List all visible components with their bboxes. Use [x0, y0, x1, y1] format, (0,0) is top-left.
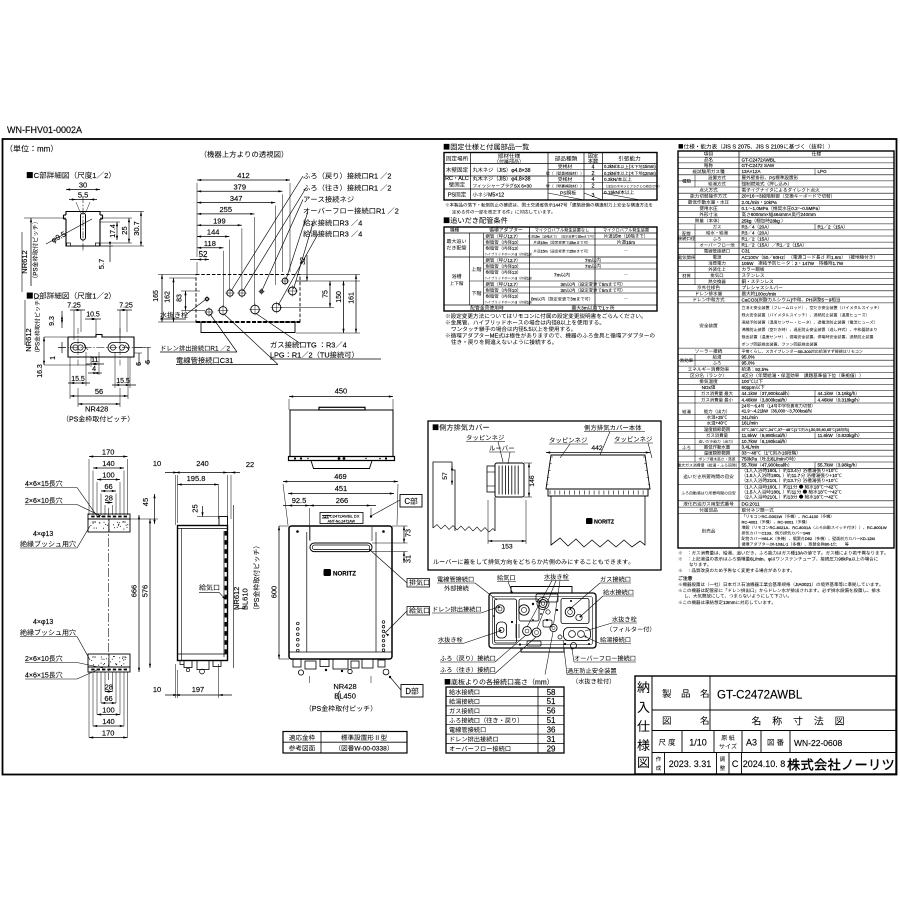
svg-text:92.5: 92.5	[292, 496, 307, 505]
svg-text:R1: R1	[742, 237, 748, 242]
svg-text:10: 10	[512, 288, 517, 293]
svg-text:,38: ,38	[750, 428, 755, 432]
svg-text:R1: R1	[369, 184, 378, 193]
svg-text:4: 4	[752, 224, 755, 229]
svg-text:30: 30	[79, 181, 87, 190]
D dim 10.5	[85, 312, 101, 336]
svg-text:+25: +25	[716, 415, 724, 420]
svg-text:WN-22-0608: WN-22-0608	[794, 738, 842, 748]
svg-text:1: 1	[50, 356, 57, 360]
svg-text:AC100V: AC100V	[742, 255, 760, 260]
svg-text:240mm: 240mm	[801, 212, 816, 217]
svg-text:2.0L/min: 2.0L/min	[742, 200, 760, 205]
svg-text:30.7: 30.7	[132, 221, 141, 236]
svg-text:4: 4	[92, 366, 96, 373]
svg-text:9,980kcal/h: 9,980kcal/h	[762, 433, 786, 438]
svg-text:2: 2	[752, 237, 755, 242]
svg-text:37,900kcal/h: 37,900kcal/h	[762, 391, 788, 396]
exhaust dim 146	[524, 463, 536, 497]
bracket centerline	[108, 508, 110, 680]
svg-text:12mm): 12mm)	[643, 171, 657, 176]
svg-text:+10: +10	[826, 478, 834, 483]
svg-text:7m: 7m	[554, 273, 561, 279]
svg-text:1.6m: 1.6m	[831, 255, 841, 260]
top view width dims	[197, 171, 290, 249]
svg-text:φ: φ	[768, 557, 771, 562]
svg-text:GT-C2472 SAW: GT-C2472 SAW	[742, 163, 775, 168]
svg-text:),50,55,60,65: ),50,55,60,65	[809, 428, 831, 432]
svg-text:C: C	[404, 497, 410, 506]
svg-text:C31: C31	[220, 356, 233, 365]
C part outline	[64, 202, 103, 246]
side view bottom parts	[178, 654, 228, 674]
D dim 7.25 right	[117, 303, 133, 341]
D part outline	[68, 335, 134, 358]
svg-text:0m: 0m	[531, 297, 537, 302]
svg-text:0.3kN/: 0.3kN/	[604, 177, 618, 182]
svg-text:15A: 15A	[759, 243, 768, 248]
svg-text:16: 16	[782, 451, 788, 456]
svg-text:25kg: 25kg	[742, 218, 752, 223]
svg-text:600: 600	[270, 586, 279, 599]
svg-text:A3: A3	[746, 738, 757, 748]
svg-text:10: 10	[512, 240, 517, 245]
kanagata table	[283, 732, 407, 754]
side view louvers	[225, 531, 227, 654]
svg-text:4×φ13: 4×φ13	[33, 531, 53, 538]
svg-text:15mm): 15mm)	[643, 164, 657, 169]
svg-text:M5×12: M5×12	[488, 193, 504, 199]
svg-text:TG: TG	[307, 341, 317, 350]
svg-text:100: 100	[102, 471, 115, 480]
front panel lines	[307, 532, 376, 652]
svg-text:RC: RC	[445, 176, 453, 182]
svg-text:150: 150	[336, 291, 343, 303]
svg-text:13: 13	[788, 494, 794, 499]
svg-text:4.21kW: 4.21kW	[754, 409, 768, 414]
svg-text:11.6kW: 11.6kW	[742, 433, 758, 438]
svg-text:20+16: 20+16	[742, 194, 755, 199]
title rows	[652, 710, 896, 753]
svg-text:RC-8031A: RC-8031A	[792, 525, 811, 530]
svg-text:18: 18	[814, 494, 820, 499]
exhaust cover body	[546, 455, 650, 547]
drain small	[204, 296, 210, 302]
svg-text:31: 31	[547, 735, 556, 744]
svg-text:210L: 210L	[767, 494, 778, 499]
svg-text:φ4.8×38: φ4.8×38	[511, 177, 530, 183]
side view body	[178, 517, 228, 661]
svg-text:-3: -3	[514, 300, 517, 304]
D NR612 label	[24, 298, 42, 352]
bv label gas	[570, 576, 632, 609]
svg-text:2×6×10: 2×6×10	[25, 498, 49, 505]
svg-text:105W: 105W	[742, 261, 755, 266]
nounyuu column	[637, 681, 649, 768]
svg-text:240: 240	[196, 459, 209, 468]
table1	[444, 153, 659, 201]
svg-text:1: 1	[92, 292, 96, 301]
svg-text:469: 469	[334, 472, 347, 481]
svg-text:6L/min: 6L/min	[771, 456, 785, 461]
svg-text:9,190kcal/h: 9,190kcal/h	[762, 439, 786, 444]
svg-text:666: 666	[130, 585, 139, 598]
svg-text:13: 13	[527, 276, 531, 280]
svg-text:3,700kcal/h: 3,700kcal/h	[789, 409, 811, 414]
svg-text:JIA0021: JIA0021	[795, 582, 812, 587]
svg-text:RC-9001: RC-9001	[778, 519, 795, 524]
svg-text:170: 170	[102, 729, 115, 738]
svg-text:R1: R1	[777, 243, 783, 248]
front NORITZ logo	[324, 569, 357, 578]
height table	[446, 687, 564, 753]
D NR428 pitch note	[67, 416, 130, 424]
svg-text:58: 58	[547, 688, 556, 697]
svg-text:mm: mm	[37, 145, 51, 154]
svg-text:576: 576	[141, 585, 150, 598]
front screws	[296, 530, 385, 533]
front dim 31	[372, 552, 413, 563]
bv label kyusui	[580, 589, 635, 617]
svg-text:165: 165	[153, 290, 160, 302]
svg-text:10: 10	[626, 234, 631, 239]
svg-text:R3: R3	[326, 341, 335, 350]
svg-text:CaCO3(: CaCO3(	[742, 297, 759, 302]
svg-text:7m: 7m	[585, 258, 592, 264]
svg-text:100cc/min: 100cc/min	[755, 291, 776, 296]
D dim 16.3	[37, 337, 90, 378]
svg-text:PS: PS	[254, 597, 261, 607]
svg-text:5.5: 5.5	[524, 327, 532, 333]
svg-text:6L/min: 6L/min	[750, 557, 764, 562]
svg-text:29: 29	[547, 744, 556, 753]
svg-text:+40: +40	[716, 421, 724, 426]
svg-text:45: 45	[141, 498, 150, 506]
svg-text:2: 2	[104, 292, 108, 301]
front dim 73	[372, 526, 413, 543]
svg-text:(16: (16	[835, 428, 841, 432]
svg-text:464mm×: 464mm×	[773, 212, 791, 217]
bv label furo yuki	[440, 637, 536, 674]
side view intake label	[199, 584, 227, 600]
drawing frame	[3, 139, 897, 775]
svg-text:0.1: 0.1	[742, 206, 749, 211]
svg-text:8: 8	[557, 321, 560, 327]
svg-text:33: 33	[742, 451, 748, 456]
svg-text:100: 100	[742, 379, 750, 384]
svg-text:2: 2	[387, 172, 391, 181]
svg-text:4×6×15: 4×6×15	[25, 673, 49, 680]
D dim 15.5 right	[112, 352, 136, 388]
svg-text:10: 10	[153, 685, 161, 694]
dim 45	[130, 494, 158, 524]
svg-text:3.16kg/h: 3.16kg/h	[838, 391, 856, 396]
svg-text:199: 199	[213, 216, 226, 225]
svg-text:41.9: 41.9	[742, 409, 751, 414]
top view right dims	[280, 255, 360, 333]
svg-text:161: 161	[349, 292, 356, 304]
svg-text:0.5MPa: 0.5MPa	[802, 206, 818, 211]
svg-text:C: C	[732, 759, 739, 769]
front dim 451	[288, 484, 394, 495]
svg-text:750kPa: 750kPa	[742, 456, 758, 461]
svg-text:1: 1	[602, 306, 605, 312]
svg-text:2: 2	[752, 243, 755, 248]
exhaust dim 153	[488, 500, 526, 551]
port kyusui	[287, 286, 298, 297]
D dim 7.25 left	[67, 303, 85, 341]
svg-text:NR428: NR428	[333, 682, 356, 691]
svg-text:37: 37	[742, 428, 746, 432]
svg-text:LPG: LPG	[270, 351, 285, 360]
exhaust louver box	[495, 463, 524, 497]
svg-text:BL450: BL450	[334, 692, 356, 701]
svg-text:9.3: 9.3	[49, 316, 56, 326]
D dim 56	[70, 357, 128, 399]
svg-text:95.0%: 95.0%	[742, 361, 755, 366]
exhaust left unit	[433, 462, 495, 532]
svg-text:0.3kN/: 0.3kN/	[604, 164, 617, 169]
svg-text:RC-G001W: RC-G001W	[762, 514, 783, 519]
C dim 5.7	[97, 242, 113, 269]
svg-text:146: 146	[529, 475, 536, 487]
svg-text:10.7kW: 10.7kW	[742, 439, 758, 444]
svg-text:147W: 147W	[802, 261, 815, 266]
svg-text:W-00-0338: W-00-0338	[354, 746, 387, 753]
svg-text:3,800kcal/h: 3,800kcal/h	[762, 397, 786, 402]
svg-text:WN-FHV01-0002A: WN-FHV01-0002A	[7, 125, 82, 135]
side view top dims	[153, 459, 254, 525]
svg-text:48: 48	[786, 428, 790, 432]
svg-text:2: 2	[787, 243, 790, 248]
svg-text:22: 22	[246, 460, 254, 469]
side view NR612 BL610	[232, 505, 261, 668]
svg-text:412: 412	[237, 171, 250, 180]
svg-text:60Hz: 60Hz	[773, 255, 784, 260]
svg-text:4.46kW: 4.46kW	[818, 397, 834, 402]
svg-text:73: 73	[404, 529, 413, 537]
svg-text:3m: 3m	[561, 282, 567, 287]
svg-text:2: 2	[746, 494, 749, 499]
svg-text:5m: 5m	[602, 282, 608, 287]
svg-text:3: 3	[759, 194, 762, 199]
port drain	[204, 307, 213, 316]
svg-text:197: 197	[192, 685, 205, 694]
svg-text:PS: PS	[69, 417, 79, 424]
C phi9.5 label	[46, 219, 92, 245]
svg-text:55.7kW: 55.7kW	[742, 463, 758, 468]
svg-text:36,000: 36,000	[772, 409, 785, 414]
bv label kaatsu	[545, 632, 617, 684]
svg-text:1: 1	[92, 171, 96, 180]
svg-text:51: 51	[547, 697, 556, 706]
svg-text:D: D	[34, 292, 40, 301]
svg-text:9: 9	[829, 297, 832, 302]
svg-text:R3: R3	[340, 219, 349, 228]
front dim 469	[283, 472, 398, 525]
height table header	[445, 679, 549, 687]
svg-text:NOx: NOx	[702, 385, 712, 390]
svg-text:0.2kN/: 0.2kN/	[604, 171, 617, 176]
svg-text:7.25: 7.25	[67, 303, 81, 310]
svg-text:100: 100	[102, 706, 115, 715]
svg-text:BL610: BL610	[241, 588, 250, 610]
bv label mizunuki right	[585, 616, 651, 632]
svg-text:48: 48	[751, 451, 757, 456]
svg-text:36: 36	[547, 726, 556, 735]
drain label	[160, 314, 237, 353]
D dim 9.3	[49, 311, 63, 328]
svg-text:12.7: 12.7	[508, 258, 517, 263]
svg-text:0.15kN/: 0.15kN/	[604, 190, 621, 195]
svg-text:4: 4	[358, 230, 362, 239]
svg-text:13A×12A: 13A×12A	[742, 169, 762, 174]
svg-text:ME: ME	[490, 334, 499, 340]
D NR428 dim	[78, 388, 120, 414]
port denki	[218, 305, 229, 316]
svg-text:JIS S 2109: JIS S 2109	[756, 145, 783, 151]
bv label intake	[497, 575, 516, 594]
svg-text:118: 118	[204, 239, 216, 248]
svg-text:15m: 15m	[613, 234, 622, 239]
svg-text:PS: PS	[448, 193, 456, 199]
svg-text:0.318kg/h: 0.318kg/h	[838, 397, 859, 402]
svg-text:R1: R1	[210, 346, 219, 353]
svg-text:95.0%: 95.0%	[742, 355, 755, 360]
svg-text:16L/min: 16L/min	[742, 421, 759, 426]
front view outline	[289, 526, 392, 659]
bv label kyuto	[585, 636, 632, 644]
svg-text:R1: R1	[376, 207, 385, 216]
svg-text:JIS: JIS	[499, 177, 507, 183]
dim 576	[141, 519, 152, 668]
svg-text:SX 6×30: SX 6×30	[514, 183, 532, 188]
bv label drain	[432, 606, 500, 613]
svg-text:55.7kW: 55.7kW	[818, 463, 834, 468]
D dim 6 6	[134, 347, 152, 366]
svg-text:PS: PS	[312, 706, 322, 713]
svg-text:2: 2	[395, 207, 399, 216]
svg-text:1.7W: 1.7W	[833, 261, 844, 266]
svg-text:450: 450	[335, 387, 348, 396]
svg-text:17.4: 17.4	[110, 224, 117, 238]
front dims 92.5 266	[283, 496, 376, 540]
svg-text:15A: 15A	[759, 237, 768, 242]
svg-text:52: 52	[199, 250, 208, 259]
svg-text:H81-K: H81-K	[762, 536, 774, 541]
plan view outline	[289, 407, 395, 468]
side view dim 195.8	[178, 474, 219, 519]
svg-text:10.5: 10.5	[86, 312, 100, 319]
svg-text:56: 56	[547, 707, 556, 716]
svg-text:4: 4	[592, 165, 595, 171]
port earth screw	[258, 288, 264, 294]
svg-text:1: 1	[766, 451, 769, 456]
bv label mizunuki top	[527, 574, 569, 629]
svg-text:2: 2	[387, 184, 391, 193]
svg-text:10: 10	[512, 264, 517, 269]
top bracket dims	[89, 448, 128, 515]
conduit label	[176, 314, 278, 365]
svg-text:C133: C133	[762, 531, 772, 536]
port kyuto	[271, 302, 283, 314]
svg-text:φ4.8×38: φ4.8×38	[511, 168, 530, 174]
svg-text:R1: R1	[818, 224, 824, 229]
svg-text:162: 162	[165, 291, 172, 303]
svg-text:255: 255	[220, 205, 233, 214]
svg-text:NR612: NR612	[24, 328, 33, 351]
bv label overflow	[571, 648, 636, 663]
svg-text:4×6×15: 4×6×15	[25, 481, 49, 488]
C dim 30.7	[100, 212, 144, 247]
svg-text:D62: D62	[805, 536, 813, 541]
row date	[656, 753, 893, 775]
svg-text:13.7: 13.7	[788, 478, 797, 483]
port furo-modori	[225, 288, 234, 297]
svg-text:28: 28	[105, 683, 113, 692]
svg-text:PS: PS	[36, 342, 42, 350]
svg-text:,32: ,32	[759, 428, 764, 432]
front intake label	[384, 607, 429, 637]
svg-text:C: C	[34, 171, 40, 180]
svg-text:442: 442	[591, 445, 603, 452]
svg-text:C31: C31	[742, 249, 751, 254]
svg-text:1.0MPa: 1.0MPa	[753, 206, 769, 211]
svg-text:25m: 25m	[578, 235, 584, 239]
svg-text:4: 4	[742, 373, 745, 378]
exhaust caption	[433, 559, 630, 565]
svg-text:4×φ13: 4×φ13	[33, 619, 53, 626]
svg-text:1447: 1447	[553, 203, 564, 208]
C dim 25	[100, 218, 132, 243]
svg-text:10: 10	[543, 235, 547, 239]
front bottom band	[289, 652, 392, 675]
top view title	[205, 151, 283, 158]
svg-text:15m: 15m	[541, 241, 548, 245]
svg-text:66: 66	[104, 694, 112, 703]
svg-text:50: 50	[763, 255, 769, 260]
svg-text:2: 2	[746, 478, 749, 483]
svg-text:20A: 20A	[759, 230, 768, 235]
table1 header	[444, 143, 529, 150]
svg-text:JX-10&L-1: JX-10&L-1	[770, 542, 790, 547]
svg-text:7m: 7m	[585, 264, 592, 270]
C detail header	[27, 171, 111, 180]
svg-text:451: 451	[335, 484, 348, 493]
svg-text:347: 347	[230, 194, 243, 203]
svg-text:NR428: NR428	[85, 405, 108, 414]
svg-text:ANT-No.2472AW: ANT-No.2472AW	[328, 519, 356, 523]
front exhaust label	[369, 549, 430, 587]
svg-text:98kPa: 98kPa	[838, 557, 851, 562]
svg-text:83: 83	[177, 294, 184, 302]
svg-text:42: 42	[828, 494, 834, 499]
svg-text:25m: 25m	[569, 241, 576, 245]
svg-text:144: 144	[207, 228, 220, 237]
svg-text:2: 2	[592, 184, 595, 190]
C NR612 dim	[20, 218, 66, 292]
svg-text:DG:2011: DG:2011	[742, 502, 760, 507]
svg-text:24L/min: 24L/min	[742, 415, 759, 420]
C detail dim 5.5	[69, 191, 97, 201]
svg-text:140: 140	[102, 717, 115, 726]
bottom bracket	[88, 654, 130, 672]
top view port labels	[303, 172, 399, 239]
svg-text:66: 66	[104, 482, 112, 491]
svg-text:13: 13	[512, 294, 517, 299]
svg-text:3.98kg/h: 3.98kg/h	[838, 463, 856, 468]
svg-text:JIS S 2075: JIS S 2075	[723, 145, 750, 151]
